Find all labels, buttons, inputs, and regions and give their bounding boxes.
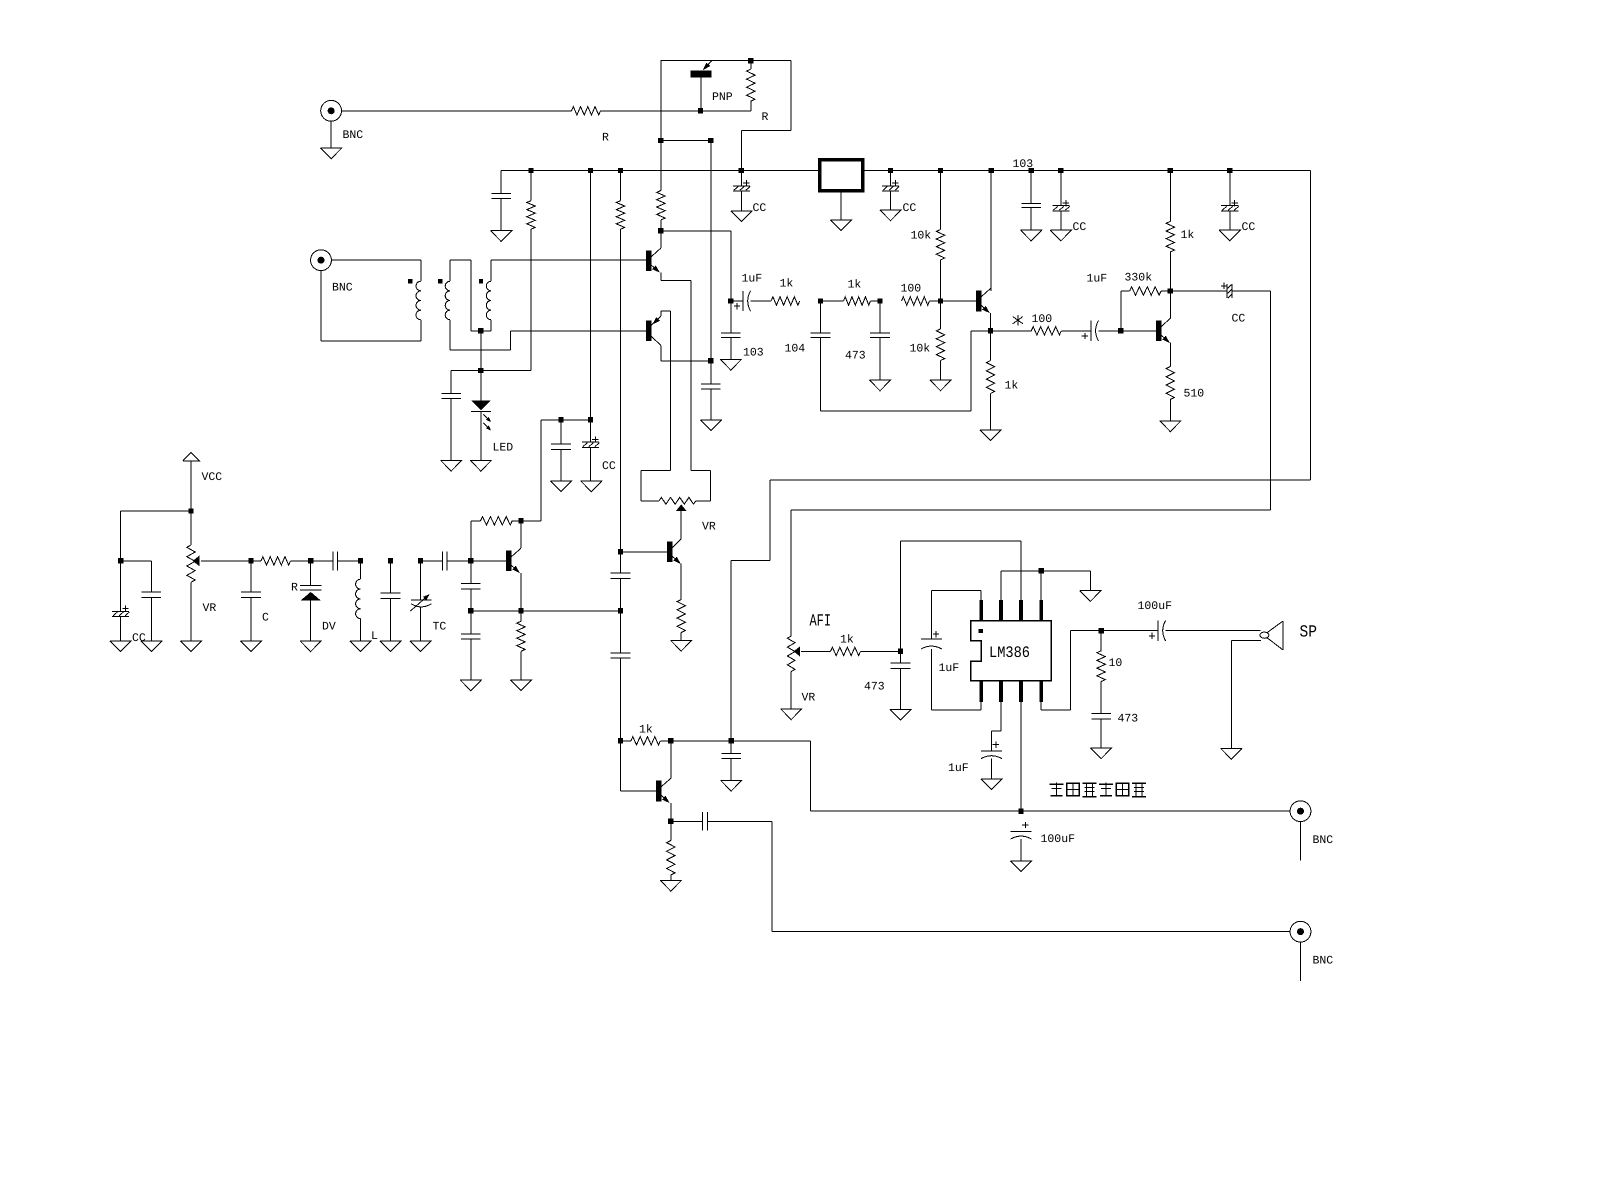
wire Q6 out to BNC4 line: [772, 821, 1290, 931]
label 104 (C16): [785, 342, 806, 355]
resistor R18 (Q5 emitter): [677, 600, 685, 641]
svg-text:BNC: BNC: [1313, 955, 1334, 968]
svg-text:CC: CC: [1232, 313, 1246, 326]
label 1uF (C14): [742, 273, 763, 286]
svg-text:330k: 330k: [1125, 272, 1153, 285]
label 103 (C11): [1013, 158, 1034, 171]
node R8/R9 junction: [877, 298, 882, 303]
svg-text:VCC: VCC: [202, 471, 223, 484]
node rail x890: [888, 168, 893, 173]
svg-text:VR: VR: [702, 521, 716, 534]
label R (series resistor): [602, 131, 609, 144]
ground (C11): [1021, 230, 1042, 241]
label 510 (R14): [1184, 388, 1205, 401]
resistor R (series, BNC line): [572, 107, 601, 115]
label R (R15): [291, 582, 298, 595]
ground (R20): [660, 880, 681, 891]
transistor Q6 (NPN, AF): [621, 741, 671, 822]
label L (L1): [371, 630, 378, 643]
svg-text:1k: 1k: [639, 724, 653, 737]
svg-text:LM386: LM386: [989, 644, 1030, 662]
node rail x1030: [1028, 168, 1033, 173]
label 103 (C15): [743, 347, 764, 360]
ground (C29): [721, 780, 742, 791]
svg-text:1k: 1k: [1181, 229, 1195, 242]
node Q6 collector junction: [668, 738, 673, 743]
capacitor C27 (x620 series upper): [611, 552, 631, 579]
ground (R14): [1160, 421, 1181, 432]
transistor Q4 (NPN, AF pre): [1121, 291, 1170, 367]
node rail x1230: [1227, 168, 1232, 173]
resistor R2 (vertical at x660): [657, 191, 665, 220]
label PNP: [712, 91, 733, 104]
svg-text:BNC: BNC: [343, 129, 364, 142]
resistor R7 1k (series): [751, 297, 800, 305]
node top-rail / R1 junction: [748, 58, 753, 63]
transformer T2 coil: [486, 281, 491, 320]
resistor R9 100 (series): [902, 297, 976, 305]
svg-text:CC: CC: [753, 202, 767, 215]
wire C13 to ground: [710, 389, 712, 420]
node rail x940: [938, 168, 943, 173]
ground (C13): [700, 420, 721, 431]
label 10 (R22): [1109, 657, 1123, 670]
label 100uF (C36): [1138, 600, 1173, 613]
capacitor C18 1uF (polarized, series): [1082, 321, 1121, 341]
resistor R14 510 (Q4 emitter): [1166, 367, 1174, 421]
wire Q3 collector riser: [990, 171, 992, 291]
wire Q2 lower terminal east: [661, 360, 711, 362]
label 473 (C35): [1118, 713, 1139, 726]
label 473 (C31): [864, 681, 885, 694]
svg-text:1uF: 1uF: [742, 273, 763, 286]
node T2 bottom junction: [478, 328, 483, 333]
label TC (TC1): [433, 621, 447, 634]
svg-text:DV: DV: [322, 621, 336, 634]
BNC connector J1 (top left input): [321, 100, 342, 121]
label AF amplifier (Japanese): [1049, 782, 1146, 796]
pin bar U1 bottom-4: [1039, 681, 1043, 702]
resistor R8 1k (series): [821, 297, 881, 305]
label CC (CC3): [1073, 221, 1087, 234]
ground (CC1): [731, 211, 752, 222]
capacitor C14 1uF (polarized, series): [731, 291, 751, 311]
capacitor C25 (osc base shunt): [461, 561, 481, 611]
svg-text:1uF: 1uF: [1087, 273, 1108, 286]
ground (speaker): [1221, 748, 1242, 759]
wire LM386 pin2 top loop: [901, 541, 1022, 652]
svg-text:TC: TC: [433, 621, 447, 634]
capacitor CC4 (rail at x1230): [1221, 171, 1238, 231]
wire Q1 emitter to x690: [661, 280, 691, 470]
capacitor C23 (series, osc base): [421, 552, 471, 571]
label 1k (R21): [840, 634, 854, 647]
capacitor C17 473 (shunt): [870, 301, 890, 380]
label BNC (J2): [332, 282, 353, 295]
ground (below BNC J1): [321, 148, 342, 159]
svg-text:1uF: 1uF: [948, 762, 969, 775]
resistor R6 1k (right): [1166, 171, 1174, 292]
ground (VR3): [781, 709, 802, 720]
node VCC branch junction: [188, 508, 193, 513]
label BNC (J4): [1313, 955, 1334, 968]
svg-text:BNC: BNC: [332, 282, 353, 295]
node phase dot (T1 primary): [408, 279, 412, 283]
capacitor C22: [381, 561, 401, 641]
resistor R17 (Q8 emitter): [517, 611, 525, 680]
label 10k (R5): [911, 230, 932, 243]
svg-text:SP: SP: [1300, 624, 1318, 643]
wire VCC west branch: [121, 511, 191, 561]
wire J2 loop: [321, 260, 421, 341]
svg-text:PNP: PNP: [712, 91, 733, 104]
label LM386 (U1): [989, 644, 1030, 662]
ground (DV1): [300, 641, 321, 652]
ground (R18): [671, 640, 692, 651]
capacitor CC7 (polarized ceramic): [582, 420, 599, 481]
wire J1 to resistor R: [342, 110, 572, 112]
svg-text:CC: CC: [1073, 221, 1087, 234]
wire x660 mid segment: [660, 141, 662, 191]
label 1k (R7): [780, 278, 794, 291]
label 1k (R11): [1005, 380, 1019, 393]
node C14 input junction: [728, 298, 733, 303]
svg-text:103: 103: [743, 347, 764, 360]
node CC6 junction: [118, 558, 123, 563]
node x620 y610 junction: [618, 608, 623, 613]
node VCC drop junction (y740): [729, 738, 734, 743]
wire VCC drop: [190, 461, 192, 545]
label VCC: [202, 471, 223, 484]
svg-text:104: 104: [785, 342, 806, 355]
wire T1 secondary top: [450, 260, 471, 331]
LED D1: [471, 371, 491, 461]
svg-text:L: L: [371, 630, 378, 643]
resistor R15 (series, tune line): [251, 557, 311, 565]
ground (C31): [890, 709, 911, 720]
node rail x530: [528, 168, 533, 173]
svg-text:LED: LED: [493, 442, 514, 455]
node x710 top junction: [708, 138, 713, 143]
ground (U1 pins 3-4): [1080, 591, 1101, 602]
potentiometer VR1 (tuning voltage): [187, 545, 251, 641]
wire R to PNP base node: [601, 110, 751, 112]
ground (R17): [510, 680, 531, 691]
resistor R19 1k (bottom): [621, 737, 671, 745]
resistor R21 1k (volume to amp): [831, 647, 901, 655]
pin bar U1 bottom-2: [999, 681, 1003, 702]
svg-text:10k: 10k: [910, 342, 931, 355]
svg-text:1k: 1k: [780, 278, 794, 291]
resistor R1 (vertical, PNP collector load): [747, 61, 755, 111]
node osc collector junction: [518, 518, 523, 523]
ground (L1): [350, 641, 371, 652]
node Q5 base junction: [618, 549, 623, 554]
pin bar U1 bottom-1: [979, 681, 983, 702]
svg-text:CC: CC: [602, 460, 616, 473]
ground (C10): [491, 231, 512, 242]
wire U1 pin5 output: [1041, 631, 1101, 710]
svg-text:R: R: [291, 582, 298, 595]
svg-text:100: 100: [1032, 313, 1053, 326]
ground (CC2): [880, 210, 901, 221]
ground (C22): [380, 641, 401, 652]
label CC (CC4): [1242, 221, 1256, 234]
node pin4 junction: [1038, 568, 1043, 573]
wire R2 to node A: [660, 220, 662, 242]
transistor Q2 (PNP, second IF amp): [646, 311, 671, 471]
ground (CC6): [110, 641, 131, 652]
ground (C26): [460, 680, 481, 691]
node x710 y360 junction: [708, 358, 713, 363]
capacitor C26 (lower): [461, 611, 481, 680]
capacitor CC2 (rail at x890): [882, 171, 899, 211]
capacitor C29 473 (shunt y740): [721, 741, 741, 781]
potentiometer VR2 (regeneration): [641, 471, 711, 539]
capacitor CC3 (rail at x1060): [1052, 171, 1069, 231]
label 100 (R9): [901, 283, 922, 296]
label 100 (R12): [1032, 313, 1053, 326]
wire U1 pin6 supply drop: [1020, 702, 1022, 811]
node C22 junction: [388, 558, 393, 563]
node phase dot (T2): [479, 279, 483, 283]
wire T1 secondary bottom step: [450, 320, 510, 350]
capacitor C30 (series, Q6 out): [671, 812, 772, 831]
node phase dot (T1 secondary): [438, 279, 442, 283]
capacitor C13 (x710 series): [701, 384, 721, 389]
wire J4 stub: [1300, 942, 1302, 981]
capacitor CC5 (series, AF out): [1170, 283, 1270, 299]
svg-text:CC: CC: [132, 632, 146, 645]
capacitor C19: [142, 592, 162, 641]
node R7/R8 junction: [818, 298, 823, 303]
wire left drop x660 upper: [660, 61, 662, 141]
capacitor C32 1uF (gain): [921, 631, 942, 649]
svg-text:CC: CC: [903, 202, 917, 215]
transformer T1 primary coil: [416, 281, 421, 320]
resistor R11 1k (Q3 emitter): [986, 331, 994, 430]
capacitor C15 103 (shunt): [721, 301, 741, 359]
ground (C33): [981, 779, 1002, 790]
wire x530 to LED node: [481, 370, 531, 372]
node rail x1170: [1168, 168, 1173, 173]
node LED top junction: [478, 368, 483, 373]
potentiometer VR3 AFI (volume): [787, 636, 830, 709]
BNC connector J2 (second input): [311, 250, 332, 271]
resistor R16 (osc feedback): [471, 517, 521, 561]
label 1k (R8): [848, 279, 862, 292]
svg-text:510: 510: [1184, 388, 1205, 401]
label BNC (J1): [343, 129, 364, 142]
label 1k (R6): [1181, 229, 1195, 242]
ground (C24): [550, 481, 571, 492]
capacitor C11 103 (rail): [1021, 171, 1041, 231]
node rail x1060: [1058, 168, 1063, 173]
IC U1 LM386 body: [971, 621, 1052, 681]
label VR (VR1): [203, 602, 217, 615]
resistor R22 10 (zobel): [1097, 631, 1105, 714]
wire x710 vertical: [710, 141, 712, 385]
svg-text:100: 100: [901, 283, 922, 296]
wire J1 to ground: [330, 121, 332, 148]
ground (C34): [1010, 861, 1031, 872]
wire Q2 base line: [511, 330, 647, 332]
wire y610 line: [471, 610, 621, 612]
label SP (SP1): [1300, 624, 1318, 643]
node tune line C junction: [248, 558, 253, 563]
transistor PNP Q7 (top, base bar): [691, 61, 712, 111]
svg-text:R: R: [762, 111, 769, 124]
ground (C35): [1091, 748, 1112, 759]
node CC7 junction: [588, 417, 593, 422]
transformer T1 secondary coil: [445, 281, 450, 320]
wire 330k feedback left leg: [1121, 291, 1130, 331]
node R5/R9 junction: [938, 298, 943, 303]
ground (C20): [240, 641, 261, 652]
power symbol VCC: [183, 453, 199, 461]
label CC (CC6): [132, 632, 146, 645]
pin bar U1 top-1: [979, 600, 983, 621]
capacitor C33 1uF (bypass): [981, 741, 1002, 779]
wire cap branch left: [451, 371, 481, 394]
speaker SP1: [1260, 621, 1283, 650]
resistor R13 330k (feedback): [1130, 287, 1171, 295]
svg-text:10k: 10k: [911, 230, 932, 243]
wire x660 to x710 link: [661, 140, 711, 142]
ground (C15): [720, 359, 741, 370]
ground (C19): [141, 641, 162, 652]
symbol test-point star: [1013, 315, 1023, 326]
wire CC6 to C19: [121, 561, 152, 592]
pin bar U1 bottom-3: [1019, 681, 1023, 702]
node A (x660 y230): [658, 228, 663, 233]
ground (C12): [441, 460, 462, 471]
node TC junction: [418, 558, 423, 563]
label 1uF (C33): [948, 762, 969, 775]
inductor L1: [356, 561, 361, 641]
resistor R10 10k (lower): [936, 301, 944, 380]
capacitor C21 (series, tune line): [311, 552, 361, 571]
node C24 junction: [558, 417, 563, 422]
resistor R3 (vertical at x530): [527, 171, 535, 371]
label 330k (R13): [1125, 272, 1153, 285]
wire x620 571-610: [620, 578, 622, 611]
wire top rail of PNP cell: [660, 60, 791, 62]
svg-text:473: 473: [1118, 713, 1139, 726]
transistor Q3 (NPN): [976, 288, 991, 331]
node PNP base junction: [698, 108, 703, 113]
svg-text:R: R: [602, 131, 609, 144]
label BNC (J3): [1313, 834, 1334, 847]
capacitor CC6 (polarized ceramic): [112, 561, 129, 641]
node Q8 base junction: [468, 558, 473, 563]
pin bar U1 top-3: [1019, 600, 1023, 621]
svg-text:VR: VR: [802, 691, 816, 704]
wire regulator to ground: [840, 191, 842, 220]
label 100uF (C34): [1041, 833, 1076, 846]
label CC (CC5): [1232, 313, 1246, 326]
varactor diode DV1: [300, 561, 322, 641]
label R (R1): [762, 111, 769, 124]
wire J3 stub: [1300, 822, 1302, 861]
node LM386 input junction: [898, 649, 903, 654]
svg-text:1k: 1k: [840, 634, 854, 647]
ground (regulator): [830, 220, 851, 231]
node Q3 emitter junction: [988, 328, 993, 333]
capacitor C12 (LED bypass): [441, 393, 461, 398]
label LED: [493, 442, 514, 455]
ground (CC4): [1219, 230, 1240, 241]
trimmer capacitor TC1: [410, 561, 431, 641]
resistor R12 100 (series): [991, 327, 1091, 335]
svg-text:1k: 1k: [1005, 380, 1019, 393]
wire C16 bottom link: [821, 331, 991, 411]
node supply line junction: [1018, 809, 1023, 814]
label CC (CC1): [753, 202, 767, 215]
transistor Q1 (NPN, first IF amp): [646, 242, 661, 280]
capacitor C36 100uF (output, series): [1101, 621, 1260, 641]
label 1uF (C32): [939, 662, 960, 675]
wire U1 pin7 bypass: [992, 702, 1002, 751]
transistor Q5 (NPN, detector): [621, 539, 682, 600]
svg-text:100uF: 100uF: [1138, 600, 1173, 613]
capacitor CC1 (rail, polarized ceramic): [733, 171, 750, 211]
node y610 west junction: [468, 608, 473, 613]
transistor Q8 (NPN, oscillator): [471, 521, 521, 611]
capacitor C35 473 (zobel): [1091, 714, 1111, 748]
resistor R4 (vertical at x620): [616, 171, 624, 552]
wire LED node drop: [480, 331, 482, 371]
node R6/R13 junction: [1168, 288, 1173, 293]
node DV junction: [308, 558, 313, 563]
node 1k row west junction: [618, 738, 623, 743]
wire rail east drop to AF section: [731, 171, 1310, 741]
pin bar U1 top-4: [1039, 600, 1043, 621]
svg-text:AFI: AFI: [810, 612, 832, 631]
pin 1 marker (U1): [978, 629, 982, 633]
svg-text:C: C: [262, 612, 269, 625]
capacitor C24: [551, 420, 571, 481]
svg-text:CC: CC: [1242, 221, 1256, 234]
svg-text:100uF: 100uF: [1041, 833, 1076, 846]
wire C12 to ground: [450, 399, 452, 461]
label CC (CC2): [903, 202, 917, 215]
pin bar U1 top-2: [999, 600, 1003, 621]
node output junction: [1098, 628, 1103, 633]
wire x590 vertical: [590, 171, 592, 420]
wire CC5 drop to volume pot: [791, 291, 1270, 636]
wire right loop PNP to rail: [741, 61, 791, 171]
label CC (CC7): [602, 460, 616, 473]
node rail x990: [988, 168, 993, 173]
wire node A east: [661, 231, 731, 301]
ground (C17): [869, 380, 890, 391]
svg-text:10: 10: [1109, 657, 1123, 670]
svg-text:473: 473: [864, 681, 885, 694]
node Q6 emitter junction: [668, 819, 673, 824]
ground (R10): [930, 380, 951, 391]
node Q8 emitter junction: [518, 608, 523, 613]
label VR (VR3): [802, 691, 816, 704]
svg-text:1uF: 1uF: [939, 662, 960, 675]
resistor R20 (Q6 emitter): [667, 821, 675, 880]
ground (CC3): [1050, 230, 1071, 241]
svg-text:VR: VR: [203, 602, 217, 615]
capacitor C10 (rail west end): [491, 171, 511, 231]
wire to audio output line: [811, 741, 1291, 811]
wire osc collector to y419 line: [521, 420, 591, 521]
wire main supply rail y170: [501, 170, 1310, 172]
